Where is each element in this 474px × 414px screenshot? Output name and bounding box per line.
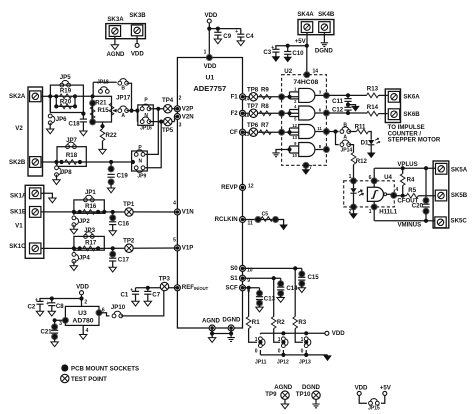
wire +5V down to U2 pin14 <box>306 46 308 75</box>
capacitor C7 <box>146 286 150 290</box>
svg-text:SK1B: SK1B <box>10 209 27 216</box>
svg-text:VDD: VDD <box>204 12 217 19</box>
ground select rail <box>324 355 331 360</box>
node gate1 input tie <box>287 95 291 99</box>
ground C16 <box>109 230 116 236</box>
svg-text:JP13: JP13 <box>299 360 311 366</box>
pin VDD of U1 <box>206 54 212 60</box>
node TP4 branch <box>156 107 160 111</box>
node JP9 entry <box>131 160 135 164</box>
svg-text:12: 12 <box>292 123 297 128</box>
svg-text:SK3B: SK3B <box>129 12 146 19</box>
svg-text:ADE7757: ADE7757 <box>193 84 226 93</box>
wire N riser to JP9 <box>145 122 161 168</box>
jumper JP6 <box>49 96 51 112</box>
node gate4 output pin <box>323 146 329 152</box>
svg-text:C7: C7 <box>152 291 160 298</box>
svg-text:SK5C: SK5C <box>451 218 468 225</box>
ground C13 <box>256 306 263 312</box>
wire R19/R20 parallel ties <box>55 96 57 106</box>
connector SK4B <box>319 22 330 33</box>
svg-text:SK1A: SK1A <box>10 193 27 200</box>
connector SK2A <box>30 91 41 102</box>
pin V1N <box>174 209 180 215</box>
gate U2A <box>299 88 315 102</box>
node C20 top on VPLUS <box>424 166 428 170</box>
connector SK1B <box>30 207 41 218</box>
ground TP9 <box>281 403 288 409</box>
pin F1 <box>240 94 246 100</box>
svg-text:C14: C14 <box>286 285 298 292</box>
pin V2N <box>174 114 180 120</box>
svg-text:DGND: DGND <box>222 316 241 323</box>
node C12 bottom on F2 out wire <box>346 111 350 115</box>
svg-text:11: 11 <box>317 126 322 131</box>
svg-text:F1: F1 <box>231 93 239 100</box>
connector SK4A <box>301 22 312 33</box>
svg-text:+5V: +5V <box>295 38 307 45</box>
pin 14 U2 <box>304 72 310 78</box>
wire F2 row <box>243 112 299 114</box>
capacitor C10 <box>286 44 290 48</box>
svg-text:JP11: JP11 <box>255 360 267 366</box>
svg-text:14: 14 <box>313 69 319 75</box>
svg-text:PCB MOUNT SOCKETS: PCB MOUNT SOCKETS <box>71 365 139 372</box>
svg-text:VDD: VDD <box>332 330 345 337</box>
svg-text:SK1C: SK1C <box>9 243 26 250</box>
svg-text:U1: U1 <box>205 75 214 82</box>
svg-text:VDD: VDD <box>355 385 368 392</box>
ground DGND under SK4B <box>321 41 328 46</box>
ground opto input <box>350 213 357 218</box>
svg-text:0: 0 <box>278 348 281 354</box>
pin 1 U4 bottom <box>373 201 375 220</box>
svg-text:3: 3 <box>59 321 62 327</box>
svg-text:R15: R15 <box>98 107 110 114</box>
wire RCLKIN row <box>243 219 259 221</box>
node gate1 output pin <box>323 92 329 98</box>
wire gate2 output to R14 <box>326 112 366 114</box>
connector block V2 outline <box>28 87 43 176</box>
wire gate1 input tie bar <box>289 92 291 99</box>
node VDD tap terminal <box>325 331 329 335</box>
svg-text:SK5A: SK5A <box>451 167 468 174</box>
node C20 bottom on VMINUS <box>424 219 428 223</box>
wire JP10 to TP3 riser <box>121 290 164 316</box>
resistor R1 <box>248 288 250 317</box>
node DGND link junction <box>229 331 233 335</box>
ground C2 <box>36 310 43 316</box>
resistor R4 <box>402 168 404 173</box>
svg-text:74HC08: 74HC08 <box>293 79 318 86</box>
ground DGND bars <box>227 336 234 341</box>
node R4 bottom <box>401 194 405 198</box>
pin 4 U3 ground <box>82 325 84 334</box>
svg-text:TP5: TP5 <box>162 127 174 134</box>
svg-text:U2: U2 <box>284 68 292 75</box>
node JP17 box entry <box>91 94 95 98</box>
svg-text:SK6B: SK6B <box>403 111 420 118</box>
capacitor C11 <box>346 93 350 97</box>
svg-text:U3: U3 <box>78 310 87 317</box>
legend test point <box>61 374 69 382</box>
svg-text:STEPPER MOTOR: STEPPER MOTOR <box>388 137 441 144</box>
pin 4 U4 output <box>387 193 394 195</box>
box JP17/R21/R15 <box>92 96 112 122</box>
node gate2 input tie <box>287 111 291 115</box>
svg-text:9: 9 <box>247 278 250 284</box>
resistor R12 <box>351 153 356 165</box>
node R1 branch <box>247 286 251 290</box>
node C11 C12 mid <box>346 103 350 107</box>
connector SK5B <box>435 190 446 201</box>
wire ground select rail <box>260 354 327 356</box>
wire S1 row <box>243 277 281 279</box>
wire F1 row <box>243 96 299 98</box>
ground TP10 <box>312 403 319 408</box>
wire VPLUS rail <box>375 167 436 169</box>
svg-text:2: 2 <box>179 96 182 102</box>
svg-text:JP7: JP7 <box>66 137 77 144</box>
wire B jumper to R11 <box>349 131 357 133</box>
wire R18 to JP9 <box>80 161 132 163</box>
svg-text:R4: R4 <box>407 176 415 183</box>
svg-text:12: 12 <box>248 184 254 190</box>
svg-text:0: 0 <box>255 348 258 354</box>
connector SK6A <box>388 91 399 102</box>
jumper JP17 position B <box>118 79 129 86</box>
svg-text:+: + <box>46 301 49 307</box>
wire gate4 output <box>315 149 327 151</box>
node gate3 output pin <box>323 128 329 134</box>
wire CF row <box>243 131 299 133</box>
svg-text:SK6A: SK6A <box>403 93 420 100</box>
jumper JP12 <box>282 333 284 334</box>
svg-text:C2: C2 <box>28 304 36 311</box>
capacitor C20 <box>423 197 429 203</box>
connector SK1A <box>30 188 41 199</box>
wire D1 to ground <box>370 145 372 153</box>
svg-text:C4: C4 <box>246 33 254 40</box>
svg-text:R7: R7 <box>261 122 269 129</box>
svg-text:+: + <box>130 288 133 294</box>
legend PCB mount sockets <box>62 365 68 371</box>
wire VDD stem <box>208 23 210 29</box>
pin 6 U4 top <box>373 168 375 187</box>
svg-text:13: 13 <box>292 135 297 140</box>
svg-text:JP10: JP10 <box>111 304 126 311</box>
wire SK2B row <box>41 161 62 163</box>
pin S1 <box>240 275 246 281</box>
pin REVP <box>240 184 246 190</box>
pin 3 U3 <box>53 318 57 322</box>
wire JP18 riser <box>92 82 94 96</box>
svg-text:2: 2 <box>84 300 87 306</box>
svg-text:R13: R13 <box>367 85 379 92</box>
svg-text:C10: C10 <box>292 50 304 57</box>
svg-text:JP14: JP14 <box>340 148 352 154</box>
wire up to V2N <box>175 117 178 122</box>
svg-text:R16: R16 <box>85 203 97 210</box>
ground C10 <box>284 56 291 61</box>
svg-text:JP18: JP18 <box>97 80 109 86</box>
ground C17 <box>109 266 116 272</box>
svg-text:JP12: JP12 <box>277 360 289 366</box>
wire AGND-DGND link <box>212 333 231 335</box>
wire SK1C row <box>41 247 80 249</box>
svg-text:V2N: V2N <box>182 114 194 121</box>
box JP16 <box>138 105 154 125</box>
node gate2 output pin <box>323 110 329 116</box>
svg-text:C16: C16 <box>118 220 130 227</box>
svg-text:JP9: JP9 <box>137 174 146 180</box>
svg-text:C11: C11 <box>332 98 343 105</box>
wire gate3 output <box>315 131 327 133</box>
ground C1 <box>132 300 139 306</box>
node JP13 top <box>304 331 308 335</box>
node gate3 input tie <box>287 130 291 134</box>
wire gate1 output <box>315 94 327 96</box>
wire JP18 top rail <box>93 81 117 83</box>
svg-text:VMINUS: VMINUS <box>397 222 421 229</box>
ground C8 <box>48 310 55 316</box>
pin REF IN/OUT <box>174 285 180 291</box>
svg-text:S0: S0 <box>230 265 238 272</box>
wire B branch down <box>127 83 132 110</box>
ground JP6 <box>49 123 51 129</box>
svg-text:6: 6 <box>369 175 372 181</box>
ground C3 <box>273 56 280 61</box>
wire REF row <box>136 287 178 289</box>
wire VDD to C4 <box>209 28 241 30</box>
capacitor C12 <box>347 105 349 108</box>
svg-text:C19: C19 <box>117 172 129 179</box>
node R4 top <box>401 166 405 170</box>
svg-text:C21: C21 <box>41 328 53 335</box>
svg-text:AGND: AGND <box>274 384 293 391</box>
wire AGND pin down <box>211 328 213 337</box>
node VDD terminal SK3B <box>135 43 139 47</box>
svg-text:JP16: JP16 <box>140 126 152 132</box>
wire R11 to D1 <box>368 132 371 140</box>
wire SK3B to VDD <box>136 36 138 44</box>
svg-text:TP1: TP1 <box>123 201 135 208</box>
wire P riser to JP9 <box>145 109 158 155</box>
IC U3 AD780 body <box>65 306 99 325</box>
node TP5 branch <box>159 120 163 124</box>
svg-text:TP10: TP10 <box>296 391 311 398</box>
ground AGND under SK3A <box>111 44 118 50</box>
svg-text:TEST POINT: TEST POINT <box>71 376 107 383</box>
svg-text:11: 11 <box>248 220 254 226</box>
ground SK1A <box>49 197 56 203</box>
ground C21 <box>51 341 58 347</box>
wire S0 row <box>243 267 302 269</box>
wire CFOUT row <box>394 195 407 197</box>
gate U2B <box>299 106 315 120</box>
capacitor C17 <box>111 246 115 250</box>
svg-text:R12: R12 <box>356 158 368 165</box>
svg-text:1: 1 <box>204 49 207 55</box>
node JP12 top <box>281 331 285 335</box>
connector SK6B <box>388 109 399 120</box>
box JP1/R16 <box>74 200 104 213</box>
node JP4 branch <box>72 246 76 250</box>
ground R22 <box>99 148 106 154</box>
svg-text:+: + <box>271 45 274 51</box>
capacitor C8 polarized <box>50 296 54 300</box>
svg-text:R3: R3 <box>298 319 306 326</box>
node F1 at U2 edge <box>279 94 285 100</box>
box JP9 <box>132 151 148 171</box>
svg-text:7: 7 <box>309 165 312 171</box>
svg-text:AGND: AGND <box>107 51 126 58</box>
svg-text:R21: R21 <box>95 100 107 107</box>
svg-text:REVP: REVP <box>221 184 238 191</box>
pin SCF <box>240 285 246 291</box>
capacitor C15 <box>301 268 303 274</box>
ground JP8 <box>56 175 58 180</box>
wire A jumper to R12 <box>349 145 354 153</box>
connector SK5C <box>435 217 446 228</box>
resistor R22 <box>102 122 104 129</box>
svg-text:R1: R1 <box>252 319 260 326</box>
svg-text:JP8: JP8 <box>61 169 72 176</box>
wire R16 to V1N <box>98 211 177 213</box>
svg-text:VDD: VDD <box>204 63 217 70</box>
capacitor C16 <box>111 210 115 214</box>
jumper JP8 <box>56 162 58 165</box>
node +5V junction <box>305 44 309 48</box>
jumper JP15 <box>369 399 380 406</box>
capacitor C4 polarized <box>240 29 242 35</box>
wire mid node to ground hook <box>348 105 356 106</box>
svg-text:SK2A: SK2A <box>9 93 26 100</box>
capacitor C21 polarized <box>54 320 56 327</box>
pin V2P <box>174 106 180 112</box>
svg-text:V1N: V1N <box>182 209 194 216</box>
svg-text:V1P: V1P <box>182 245 194 252</box>
svg-text:C3: C3 <box>263 49 271 56</box>
capacitor C13 <box>259 288 261 294</box>
resistor R21 <box>90 100 96 106</box>
jumper JP2 <box>73 212 75 215</box>
wire C20 column <box>425 168 427 200</box>
svg-text:1: 1 <box>278 337 281 343</box>
ground RCLKIN <box>280 224 287 229</box>
pin RCLKIN <box>240 217 246 223</box>
svg-text:0: 0 <box>301 348 304 354</box>
ground C9 <box>214 38 221 44</box>
svg-text:VDD: VDD <box>131 50 144 57</box>
resistor R2 <box>273 278 275 316</box>
pin 6 U3 output <box>96 310 102 316</box>
jumper JP17 position A <box>118 106 129 113</box>
svg-text:V2P: V2P <box>182 105 194 112</box>
wire N row to TP5 <box>149 121 175 123</box>
svg-text:R9: R9 <box>261 87 269 94</box>
IC U2 74HC08 dashed outline <box>282 75 327 166</box>
wire DGND pin down <box>230 328 232 336</box>
svg-text:4: 4 <box>173 201 176 207</box>
svg-text:SK4A: SK4A <box>297 11 314 18</box>
jumper JP13 <box>305 333 307 334</box>
gate U2C <box>299 125 315 139</box>
wire C5 to ground <box>276 220 284 225</box>
pin V1P <box>174 245 180 251</box>
svg-text:SCF: SCF <box>226 284 238 291</box>
wire VDD rail left <box>40 299 82 302</box>
svg-text:C18: C18 <box>69 121 81 128</box>
LED opto input <box>353 181 355 188</box>
connector block V1 outline <box>25 185 44 258</box>
connector block SK5 outline <box>433 161 449 228</box>
svg-text:R17: R17 <box>85 240 97 247</box>
svg-text:CF: CF <box>230 129 238 136</box>
svg-text:5: 5 <box>173 237 176 243</box>
wire SK1B row <box>41 211 80 213</box>
wire JP15 link <box>359 395 367 403</box>
svg-text:1: 1 <box>369 209 372 215</box>
svg-text:C17: C17 <box>118 257 130 264</box>
box JP3/R17 <box>74 236 104 250</box>
capacitor C18 <box>82 113 84 120</box>
node JP6 branch <box>48 94 52 98</box>
ground JP2 <box>73 225 75 229</box>
wire VDD down to U1 pin1 <box>208 29 210 58</box>
connector SK5A <box>436 163 447 174</box>
node R3 branch <box>293 266 297 270</box>
svg-text:10: 10 <box>292 153 297 158</box>
svg-text:R5: R5 <box>408 187 416 194</box>
svg-text:SK5B: SK5B <box>451 192 468 199</box>
connector SK3A <box>109 26 120 37</box>
wire gate3 output to JP14 <box>326 131 338 133</box>
node R2 branch <box>272 276 276 280</box>
svg-text:TP4: TP4 <box>162 97 174 104</box>
wire SK3A to AGND <box>114 36 116 44</box>
svg-text:SK3A: SK3A <box>107 16 124 23</box>
ground C15 <box>298 287 305 293</box>
ground C11/C12 <box>352 105 359 110</box>
wire branch down to A jumper <box>336 132 339 145</box>
node JP2 branch <box>72 210 76 214</box>
connector block SK6 outline <box>385 89 400 123</box>
svg-text:R22: R22 <box>106 132 118 139</box>
op-amp/IC U1 ADE7757 body <box>177 58 242 329</box>
box JP5/R19/R20 <box>50 85 83 112</box>
svg-text:AGND: AGND <box>202 317 221 324</box>
optocoupler U4 dashed package box <box>344 181 395 207</box>
svg-text:1: 1 <box>301 337 304 343</box>
node A/B join <box>129 109 133 113</box>
svg-text:V2: V2 <box>15 125 23 132</box>
svg-text:4: 4 <box>395 187 398 193</box>
svg-text:VDD: VDD <box>76 284 89 291</box>
svg-text:+: + <box>35 298 38 304</box>
svg-text:C8: C8 <box>56 303 64 310</box>
arrow tap to A jumper <box>113 110 117 112</box>
ground C4 <box>237 40 244 46</box>
ground AGND arrow <box>208 336 215 342</box>
capacitor C19 <box>109 160 113 164</box>
wire SK4B to DGND <box>323 33 325 42</box>
svg-text:JP4: JP4 <box>79 254 90 261</box>
svg-text:C20: C20 <box>412 202 424 209</box>
svg-text:JP6: JP6 <box>56 116 67 123</box>
node VDD rail junction <box>79 296 83 300</box>
pin F2 <box>240 110 246 116</box>
